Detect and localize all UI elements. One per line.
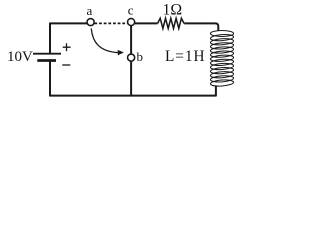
wire left rail lower (battery - plate down to bottom rail) <box>49 61 51 96</box>
svg-text:L=1H: L=1H <box>165 48 205 65</box>
svg-text:a: a <box>87 3 93 18</box>
svg-text:c: c <box>128 3 134 18</box>
resistor R1 1-ohm zigzag <box>158 18 184 28</box>
battery V1 positive plate (long) <box>33 53 61 55</box>
svg-text:1Ω: 1Ω <box>163 2 183 19</box>
battery V1 negative plate (short thick) <box>37 59 56 62</box>
wire node c to resistor <box>134 22 157 24</box>
wire bottom rail <box>49 95 216 97</box>
switch throw arrow from a to b <box>91 28 124 55</box>
wire inductor bottom lead (coil bottom to bottom-right corner) <box>215 86 217 97</box>
wire node c to node b <box>130 26 132 54</box>
wire switch dashed (old blade position from a to c) <box>94 22 127 24</box>
node c terminal circle <box>128 18 135 25</box>
svg-text:10V: 10V <box>7 49 33 65</box>
svg-text:b: b <box>137 49 144 64</box>
battery + polarity mark <box>63 43 71 51</box>
wire resistor to top-right bend into inductor <box>184 23 218 30</box>
wire node b down to bottom rail (T junction) <box>130 61 132 96</box>
inductor L1 coil (solenoid turns) <box>210 31 234 87</box>
node b terminal circle <box>128 54 135 61</box>
wire left rail upper (top rail corner down to battery + plate) <box>49 23 51 54</box>
node a terminal circle <box>87 19 94 26</box>
wire top-left (top rail from left corner to switch node a) <box>50 22 87 24</box>
battery - polarity mark <box>62 64 70 66</box>
